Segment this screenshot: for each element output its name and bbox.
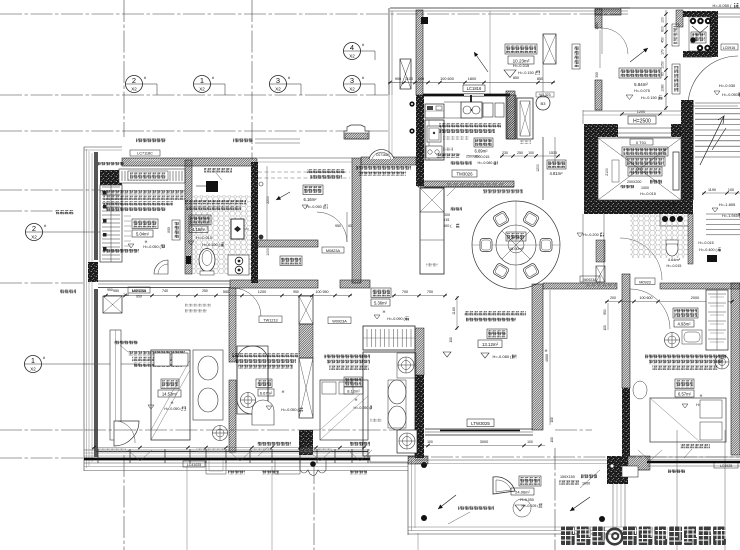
svg-text:6.67m²: 6.67m² [260,391,273,396]
balcony shower quarter [493,477,515,494]
svg-text:150X150: 150X150 [560,475,575,479]
svg-text:H=-0.015: H=-0.015 [513,63,530,68]
parapet bump corner [344,125,369,139]
upper balcony label [303,185,323,195]
water shaft hatched left wall [676,10,683,27]
thin line v x418 [417,533,419,550]
svg-text:1160: 1160 [452,307,456,315]
wall between bath and balcony speckled [251,162,258,283]
mid wall H5 left wing: window band left part [98,280,230,282]
left outer boundary lines [83,147,85,471]
washer bottom of closet [397,430,417,453]
bathroom1 walls [185,160,192,274]
entry hall label 入户先厅 [505,44,537,54]
svg-text:H=-0.015: H=-0.015 [196,236,212,240]
前室 second door wall piece [595,80,602,110]
svg-text:H=-0.050 (: H=-0.050 ( [164,407,182,411]
elevator cab inner box [598,138,681,200]
balcony top inner lines [415,459,607,461]
svg-text:950: 950 [335,224,341,228]
hydrant circle [536,96,550,110]
small wall hatched left corridor [596,240,605,262]
wall segment right of dining [542,137,544,200]
中置百叶 top label [233,139,253,143]
thin lines right of water shaft [718,13,740,15]
balcony left edge double [407,457,409,535]
bedroom1 text A4 [128,351,185,355]
top wall of kitchen/entry H1 left piece [423,94,464,97]
sliding door label leader [447,188,455,196]
svg-text:60: 60 [661,72,665,76]
annotation rows left of kitchen [356,166,411,170]
bathroom1 toilet [199,249,215,272]
hatched block at balcony left top [408,456,428,464]
svg-text:100: 100 [728,188,734,192]
floor lines above elevator [583,110,683,112]
M0823A label [322,247,344,253]
wall below bathroom3 [688,214,693,264]
bottom band lower lines [84,462,408,464]
right edge wall hatched [731,283,740,455]
svg-text:X2: X2 [30,367,36,372]
svg-text:950: 950 [107,288,113,292]
bathroom1 washer circles [228,255,249,275]
elevator text line1 [622,147,668,156]
svg-text:LC41025: LC41025 [187,463,202,467]
right closet sink symbol [665,333,680,348]
water shaft V mark [692,26,708,33]
svg-text:5.36m²: 5.36m² [374,301,388,306]
wall band right of storage y157 [361,157,416,165]
svg-text:4.81m²: 4.81m² [549,171,563,176]
bedroom1 label [161,379,179,389]
svg-text:1000: 1000 [582,481,590,485]
vent dots on kitchen wall [409,101,414,106]
water shaft label 水井 [691,32,706,43]
svg-text:H=-0.050 (: H=-0.050 ( [281,408,299,412]
svg-text:600: 600 [418,77,424,81]
svg-text:1: 1 [200,76,204,85]
svg-text:H=-0.050 (: H=-0.050 ( [353,406,371,410]
kitchen left wall speckled main [416,95,424,186]
left boundary gray bar lower [94,289,98,457]
stair wall left edge [692,100,694,200]
svg-text:5.84m²: 5.84m² [634,82,648,87]
corridor arc below stairs [620,238,662,280]
svg-text:H=-0.050 (: H=-0.050 ( [722,93,740,97]
right wing vertical wall x622 lower speckled [622,388,630,456]
corner shower quarter circle bottom-left [114,421,139,446]
svg-text:100: 100 [417,437,421,443]
kitchen gray label [443,136,469,140]
building top outline double line [390,7,630,9]
svg-text:900: 900 [395,77,401,81]
svg-text:100 600: 100 600 [640,296,653,300]
svg-text:H=2500: H=2500 [633,119,651,125]
svg-text:X2: X2 [275,87,281,92]
elevator text line3 [628,167,662,176]
900 railing labels bottom [257,442,291,446]
前室 door arc [602,28,628,54]
column box with X left of entry [400,59,411,89]
M0923A label [128,287,150,293]
elevator label 0T01 [630,139,653,145]
elevator door sill [618,127,671,129]
water shaft walls speckled [683,11,718,17]
svg-text:H: H [282,390,285,394]
TM3026 label [452,170,477,177]
svg-text:H=-0.050 (: H=-0.050 ( [712,3,732,8]
bathroom3 washbasin circles [662,216,668,222]
kitchen room label [474,138,493,147]
water shaft pipes top [690,18,696,24]
M0923A label left of corridor [580,276,600,282]
dining table inner circles [496,225,536,265]
elevator shaft left wall [584,124,598,214]
grid line h dining [370,456,740,458]
svg-text:H=-0.030: H=-0.030 [719,83,736,88]
svg-text:H: H [145,240,148,244]
dining room label [506,232,526,241]
grid line h7 left bottom [0,429,84,431]
svg-text:4: 4 [350,43,354,52]
grid line h2 [0,94,390,96]
grid line h axis2 [43,231,100,233]
railing text upper balcony [307,169,345,173]
svg-text:H=-0.150 (: H=-0.150 ( [518,71,537,75]
svg-text:X2: X2 [31,235,37,240]
corridor door dashes [586,284,590,286]
midroom chair bottom [252,400,274,425]
window LC1816 label [463,85,485,92]
svg-text:H=-0.050 (: H=-0.050 ( [306,205,325,209]
svg-text:1100: 1100 [405,77,413,81]
entry big door arc bottom right [688,56,738,106]
window LC1816 in wall [464,93,484,95]
grid line h3 [0,130,390,132]
grid line h axis1 [42,363,140,365]
axis circle 1 top [194,76,211,93]
axis circle 3a top [270,76,287,93]
midroom text A5 [232,353,298,357]
closet column left of living [363,326,415,350]
svg-text:550: 550 [223,290,229,294]
wall hatched right of entry top [506,91,515,139]
kitchen sink [427,126,441,142]
kitchen right wall hatched [507,95,516,139]
svg-text:1530: 1530 [549,151,557,155]
svg-text:H: H [383,310,386,314]
svg-text:100: 100 [550,437,554,443]
svg-text:6.57m²: 6.57m² [678,392,692,397]
thin line v x677 [676,430,678,550]
column X box left [103,296,122,313]
water shaft inner border [689,17,710,51]
A1 text block wardrobe [100,190,185,194]
svg-text:8.12m²: 8.12m² [347,389,360,394]
svg-text:2: 2 [132,76,136,85]
svg-text:740: 740 [162,289,168,293]
upper balcony small circles [259,182,263,186]
thin line v x272 [271,466,273,550]
grid line h right [555,429,592,431]
svg-text:450: 450 [661,37,665,43]
svg-text:1390: 1390 [595,22,599,30]
column dots balcony [421,462,427,468]
axis dashdot line y430 through bedrooms [84,429,405,431]
column black right [707,255,717,262]
svg-text:M0823A: M0823A [326,249,341,253]
TW0823 vertical label [172,220,180,240]
window opening triangles bottom band [128,450,152,461]
svg-text:24.06m²: 24.06m² [515,490,530,495]
right bedroom label [675,379,694,389]
axis circle 2 top [126,76,143,93]
window louver column left [100,185,122,262]
bottom band vertical separators [97,449,99,463]
upper balcony dashed rails [258,171,350,173]
column dot top [421,17,428,24]
W0923A label [328,317,351,324]
svg-text:H: H [700,394,703,398]
label LC0916 right [721,44,738,50]
closet lower cabinet [363,352,415,456]
entry shaft box [543,34,556,64]
svg-text:100: 100 [528,151,534,155]
svg-text:3: 3 [276,76,280,85]
svg-text:X2: X2 [349,54,355,59]
right closet shelving [706,290,728,350]
high window band with vertical ticks [119,169,185,183]
entry left outer wall double [388,8,390,95]
gray window texts bottom [96,449,126,453]
玄关 label [547,160,566,169]
FM1323 label vertical left [572,44,580,69]
grid line h5 [0,210,56,212]
dining table outer circle [472,201,560,289]
svg-text:1800: 1800 [468,77,476,81]
bathroom1 label [189,215,211,225]
balcony right edge verticals [612,484,614,527]
svg-text:LC0916: LC0916 [723,46,736,50]
grid line v1 [123,0,125,137]
svg-text:950: 950 [293,290,299,294]
mid wall H5 hatched mid part [230,280,318,288]
svg-text:3000: 3000 [480,440,488,444]
bedroom2 label [344,377,362,387]
svg-text:170: 170 [661,49,665,55]
glass balustrade label top-left [136,139,166,143]
floor drain symbol midroom [241,393,256,408]
wall below watershaft thin [683,56,712,58]
wall top 合用前室 left corner hatched [595,9,602,28]
svg-text:M0923: M0923 [639,280,651,284]
svg-text:H=-0.080 (: H=-0.080 ( [477,161,495,165]
bathroom1 text A2 [185,200,246,204]
svg-text:X2: X2 [349,87,355,92]
svg-text:H=-0.200 (: H=-0.200 ( [655,202,674,207]
svg-text:H: H [545,349,548,353]
svg-text:200: 200 [610,296,616,300]
left boundary gray bar upper [94,152,98,260]
connector lines entry to left wing [255,142,300,144]
svg-text:H=-0.150 (: H=-0.150 ( [641,96,660,100]
upper balcony top boundary [258,157,352,159]
svg-text:H=0.050: H=0.050 [520,498,534,502]
FM door label vertical 1 [672,24,679,46]
bathroom3 counter line [659,214,661,226]
water shaft pipes bottom [697,45,703,51]
thin line v x490 entry [489,11,491,95]
upper balcony arrow [276,192,290,200]
kitchen annotation bottom [436,154,460,158]
stairs right side [695,102,740,104]
svg-text:X2: X2 [199,87,205,92]
watermark 搜狐号@搜狐焦点鞍山站 [561,527,726,546]
svg-text:100: 100 [449,337,453,343]
left wing top edge [84,146,122,148]
svg-text:H=-1.945 (: H=-1.945 ( [722,214,740,218]
left wing right wall hatched [352,158,361,283]
right wing door arc [630,289,670,329]
grid line h6 left [0,282,84,284]
balcony slope arrow 2 [570,497,590,511]
svg-text:H=-0.075: H=-0.075 [634,89,650,93]
right bedroom bed [650,398,726,442]
balcony bottom edge lines [408,526,628,528]
svg-text:950: 950 [113,289,119,293]
bedroom2 text A6 [324,354,370,358]
corridor column X box [596,266,605,282]
svg-text:800: 800 [167,227,171,233]
bathroom1 dark fixture [206,181,218,192]
grid line v1 lower [123,455,125,550]
kitchen gray label2 [443,147,453,151]
midroom label [256,379,272,388]
svg-text:1: 1 [31,356,35,365]
wall between bedroom1 and midroom hatched [229,288,236,362]
midroom U sofa [237,346,268,414]
svg-text:H=-0.400 (: H=-0.400 ( [699,248,717,252]
LC2 label right [714,462,738,468]
corridor label 走道 [371,288,391,298]
svg-text:6.69m²: 6.69m² [474,149,488,154]
top wall left wing hatched [122,158,257,166]
900 railing label right [680,444,710,448]
living right wall hatched [532,284,543,430]
svg-text:100: 100 [661,17,665,23]
svg-text:H: H [171,401,174,405]
svg-text:60: 60 [348,224,352,228]
svg-text:1000: 1000 [266,248,270,256]
bedroom2 bed [320,380,368,440]
washbasin right wall [715,355,729,369]
left small texts near top walls [98,162,124,166]
svg-text:16.00m²: 16.00m² [509,247,524,251]
svg-text:700: 700 [402,290,408,294]
LC41025 label [183,461,205,467]
bedroom1 pillows [154,353,170,366]
svg-text:W0923A: W0923A [332,319,347,323]
axis circle 4 top [344,43,361,60]
entry area text 10.23m2 [508,56,534,64]
svg-text:740: 740 [123,293,129,297]
bathroom1 sink cabinet [231,219,244,239]
kitchen text A3 [439,123,501,127]
right bedroom text A8 [645,354,727,358]
balcony level circle [513,499,531,517]
storage room label [280,256,302,266]
svg-text:4.93m²: 4.93m² [677,322,691,327]
svg-text:200X200: 200X200 [627,180,641,184]
living room label [487,329,507,339]
kitchen bottom wall hatched [418,181,514,187]
kitchen counters left [425,120,444,160]
svg-text:M0923A: M0923A [583,278,597,282]
grid line v3 bottom [313,462,315,550]
svg-text:230: 230 [502,151,508,155]
前室 floor area above elevator [582,110,584,124]
svg-text:1200: 1200 [536,164,540,172]
bedroom1 dresser with drums [193,350,223,420]
bathroom1 drain blob [186,256,191,264]
living bottom window LTW3025 [467,419,494,427]
M0923 label right wing [635,278,655,285]
entry boundary continuation down [388,95,390,157]
elevator shaft right wall [681,100,693,214]
right wing top wall H5 hatched pieces [543,283,617,289]
balcony glass label [458,506,494,510]
bedroom1 wardrobe narrow [110,330,121,440]
bedroom1 bed [151,350,190,440]
elevator shaft bottom wall [584,200,693,214]
svg-text:TW1213: TW1213 [263,318,277,322]
grid line v2 [251,0,253,160]
corner shower arcs [154,260,168,274]
svg-text:TM3026: TM3026 [456,172,473,177]
hatched wall right of corner [628,456,650,470]
door arc bedroom1 [233,288,261,316]
FM door label vertical 2 [672,64,680,94]
wall/column stack between midroom and bedroom2 [299,296,313,324]
svg-text:2200: 2200 [266,196,270,204]
svg-text:950: 950 [136,294,142,298]
svg-text:700: 700 [427,290,433,294]
svg-text:H=-0.015: H=-0.015 [667,264,682,268]
dim line above bottom band [92,447,366,449]
svg-text:2: 2 [32,224,36,233]
closet cylinders [388,380,406,404]
svg-text:100: 100 [427,440,433,444]
bay window bump 2 [275,460,300,474]
wardrobe hatch details [124,215,131,217]
H=2500 box above elevator [628,116,656,124]
svg-text:1200: 1200 [258,290,266,294]
svg-text:4.19m²: 4.19m² [192,227,206,232]
svg-text:W1323: W1323 [539,93,550,97]
elevator text line2 [626,157,665,166]
svg-text:X2: X2 [131,87,137,92]
svg-text:100 600: 100 600 [440,77,454,81]
svg-text:H=-1.805: H=-1.805 [719,202,736,207]
svg-text:100: 100 [603,325,607,331]
door arc storage [317,212,347,242]
svg-text:100 950: 100 950 [316,290,329,294]
speckle corner left boundary [88,262,98,282]
entry left wall hatched [416,10,423,95]
MC label vertical [612,160,619,182]
right wing vertical wall x622 upper hatched [622,274,630,388]
